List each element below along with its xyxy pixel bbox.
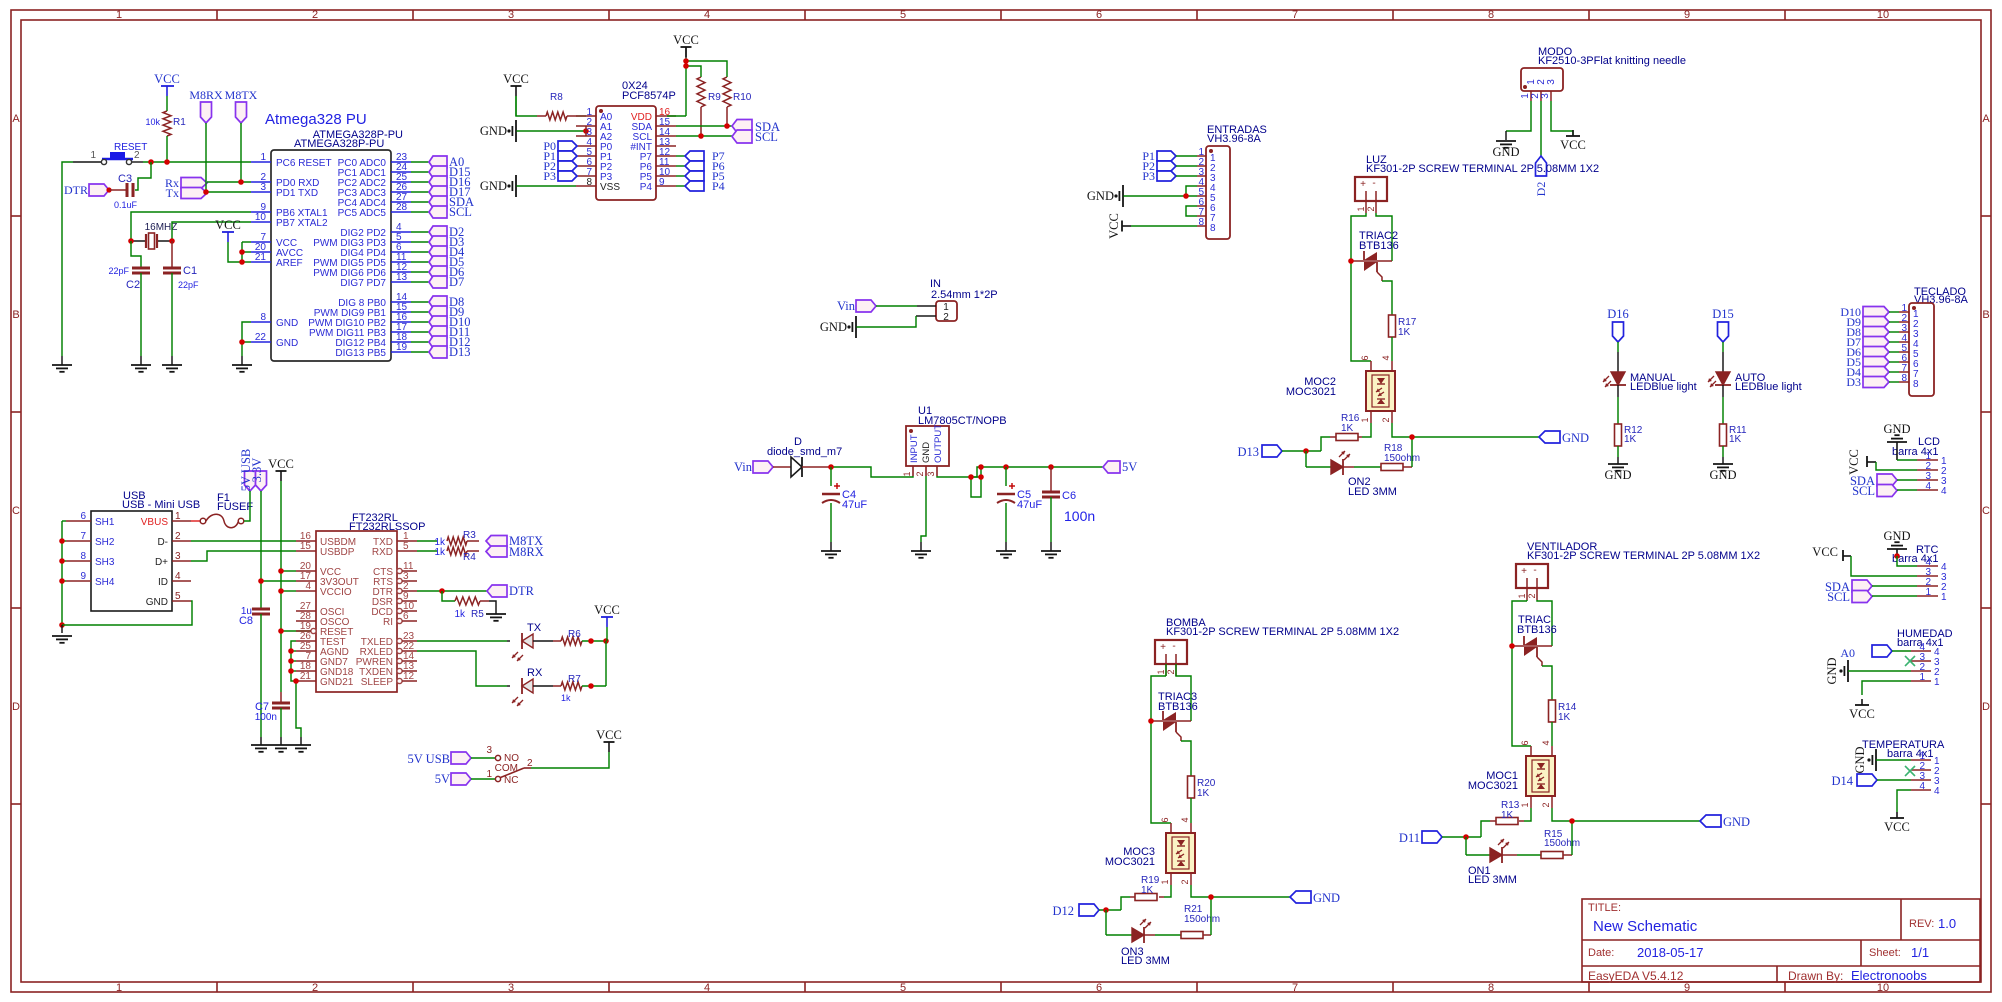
svg-text:2: 2 — [1166, 669, 1176, 674]
svg-text:1: 1 — [1156, 669, 1166, 674]
net port D13 — [1237, 445, 1282, 459]
wire pin1 to VCC — [1862, 681, 1911, 695]
svg-text:SCL: SCL — [449, 205, 472, 219]
wire SDA — [676, 125, 732, 127]
wire D7 — [1889, 341, 1899, 343]
svg-text:BTB136: BTB136 — [1158, 701, 1198, 713]
net port D12 (Atmega) — [429, 335, 471, 349]
wire M8RX down to TXD — [205, 123, 207, 192]
net port D7 (TECLADO) — [1846, 335, 1889, 349]
svg-text:DTR: DTR — [64, 183, 88, 197]
wire MOC2 pin2 to GND flag — [1392, 423, 1539, 437]
svg-text:4: 4 — [1180, 817, 1190, 822]
svg-text:9: 9 — [659, 177, 665, 188]
svg-text:6: 6 — [80, 511, 86, 522]
ground (C5) — [1005, 542, 1007, 551]
net port D7 (Atmega) — [429, 275, 464, 289]
svg-text:KF301-2P SCREW TERMINAL 2P 5.0: KF301-2P SCREW TERMINAL 2P 5.08MM 1X2 — [1527, 550, 1760, 562]
svg-text:-: - — [1172, 641, 1175, 652]
wire GND pin2 to ground — [921, 476, 926, 542]
no-connect X (TEMPERATURA pin2) — [1905, 766, 1915, 776]
ground (FT232 GND) — [300, 737, 302, 745]
capacitor C8 1u — [239, 606, 270, 627]
svg-text:1: 1 — [1919, 672, 1925, 683]
connector USB Mini — [66, 490, 200, 611]
svg-text:1K: 1K — [1141, 885, 1154, 896]
wire DTR to R5 — [442, 591, 455, 601]
wire ON1 to R15 — [1502, 854, 1517, 856]
resistor R8 — [537, 92, 577, 120]
svg-text:2018-05-17: 2018-05-17 — [1637, 945, 1704, 960]
svg-text:1K: 1K — [1341, 423, 1354, 434]
net flag M8TX (top) — [225, 88, 258, 123]
wire VCC to R1 — [166, 96, 168, 111]
svg-text:6: 6 — [1360, 355, 1370, 360]
junction AVCC — [239, 249, 245, 255]
net port D16 — [1607, 307, 1629, 342]
svg-text:VH3.96-8A: VH3.96-8A — [1914, 294, 1968, 306]
svg-text:BTB136: BTB136 — [1517, 624, 1557, 636]
net port P7 (PCF output) — [685, 149, 725, 163]
junction TRIAC2 MT1 — [1348, 258, 1354, 264]
wire RTC pin4 — [1897, 556, 1917, 566]
junction pin4/5 — [1183, 193, 1189, 199]
svg-text:1: 1 — [1925, 587, 1931, 598]
svg-text:R6: R6 — [568, 629, 581, 640]
svg-text:D14: D14 — [1831, 774, 1853, 788]
svg-text:1: 1 — [1934, 677, 1940, 688]
svg-text:5: 5 — [900, 982, 906, 994]
svg-text:VCC: VCC — [1884, 820, 1910, 834]
resistor R15 150ohm — [1541, 829, 1580, 859]
pushbutton RESET — [73, 150, 143, 165]
svg-text:D2: D2 — [1534, 182, 1548, 197]
svg-text:1.0: 1.0 — [1938, 916, 1956, 931]
net port P2 (PCF input) — [543, 159, 577, 173]
svg-text:GND: GND — [1087, 189, 1114, 203]
power flag VCC (HUMEDAD) inverted — [1849, 699, 1875, 721]
resistor R5 1k — [454, 597, 489, 620]
svg-text:D+: D+ — [155, 557, 168, 568]
net port D15 (Atmega) — [429, 165, 471, 179]
svg-text:LED 3MM: LED 3MM — [1468, 874, 1517, 886]
junction D12/LED — [1103, 907, 1109, 913]
net port D8 (TECLADO) — [1846, 325, 1889, 339]
junction D13/LED — [1303, 448, 1309, 454]
net port P6 (PCF output) — [685, 159, 725, 173]
wire DTR pin to flag — [417, 590, 487, 592]
net port P4 (PCF output) — [685, 179, 725, 193]
svg-text:R1: R1 — [173, 117, 186, 128]
net port D10 (TECLADO) — [1840, 305, 1889, 319]
svg-text:DTR: DTR — [509, 584, 535, 598]
wire P4 — [676, 185, 685, 187]
net port D12 — [1052, 904, 1099, 918]
resistor R3 1k — [434, 530, 479, 548]
svg-text:Drawn By:: Drawn By: — [1788, 969, 1843, 983]
net port D5 (Atmega) — [429, 255, 464, 269]
svg-text:4: 4 — [1925, 481, 1931, 492]
wire GND to pin1 — [1876, 759, 1911, 761]
wire ON3 to R21 — [1144, 934, 1155, 936]
net port D10 (Atmega) — [429, 315, 471, 329]
svg-text:B: B — [12, 309, 19, 321]
net port D9 (Atmega) — [429, 305, 464, 319]
svg-text:RX: RX — [527, 667, 543, 679]
net port D8 (Atmega) — [429, 295, 464, 309]
net port D15 — [1712, 307, 1734, 342]
svg-text:8: 8 — [1210, 223, 1216, 234]
net port D2 (Atmega) — [429, 225, 464, 239]
svg-text:NC: NC — [504, 775, 518, 786]
svg-text:9: 9 — [1684, 9, 1690, 21]
wire P2 — [1176, 165, 1197, 167]
svg-text:VH3.96-8A: VH3.96-8A — [1207, 133, 1261, 145]
svg-text:10: 10 — [255, 212, 267, 223]
svg-text:4: 4 — [1941, 486, 1947, 497]
wire R20 to MOC3 pin4 — [1190, 798, 1192, 823]
wire pin to port D11 — [411, 331, 429, 333]
ground (USB) — [61, 625, 63, 633]
screw terminal LUZ — [1355, 154, 1599, 201]
wire pin to port SDA — [411, 201, 429, 203]
wire pin to port D9 — [411, 311, 429, 313]
svg-text:10k: 10k — [145, 117, 160, 127]
wire D4 — [1889, 371, 1899, 373]
junction R15/GND — [1569, 818, 1575, 824]
power flag VCC (FT232) — [268, 457, 294, 481]
net port Rx — [165, 176, 207, 190]
svg-text:M8RX: M8RX — [189, 88, 223, 102]
svg-text:6: 6 — [1096, 982, 1102, 994]
resistor R18 150ohm — [1381, 443, 1420, 471]
wire GND to pin2 — [1848, 670, 1911, 672]
wire VCC rail to FT232 — [280, 481, 282, 692]
wire C5 to ground — [1005, 503, 1007, 542]
svg-text:1: 1 — [116, 9, 122, 21]
ground (left rail) — [61, 356, 63, 365]
svg-text:Date:: Date: — [1588, 947, 1614, 959]
svg-text:SCL: SCL — [1852, 484, 1875, 498]
ground (C8) — [260, 737, 262, 745]
net port D14 (TEMPERATURA) — [1831, 774, 1877, 788]
wire VCC to R8 — [515, 96, 517, 116]
wire D12 net — [1099, 909, 1121, 911]
svg-text:VCC: VCC — [1107, 213, 1121, 239]
svg-text:3.3V: 3.3V — [250, 458, 264, 483]
ground (R5) — [489, 601, 496, 614]
svg-text:PB7 XTAL2: PB7 XTAL2 — [276, 218, 328, 229]
junction AREF — [239, 259, 245, 265]
svg-text:D16: D16 — [1607, 307, 1629, 321]
junction 5V rail — [978, 464, 984, 470]
wire C2 to ground — [140, 273, 142, 356]
IC U? ATMEGA328P-PU — [251, 111, 411, 361]
svg-text:6: 6 — [1160, 817, 1170, 822]
svg-text:C6: C6 — [1062, 490, 1076, 502]
resistor R17 1K — [1389, 315, 1417, 338]
svg-text:GND: GND — [1853, 746, 1867, 773]
net port GND (VENTILADOR) — [1700, 815, 1750, 829]
junction DTR-R5 — [439, 588, 445, 594]
wire D3 — [1889, 381, 1899, 383]
net port P2 (ENTRADAS) — [1142, 159, 1176, 173]
wire pin to port D17 — [411, 191, 429, 193]
svg-text:22: 22 — [255, 332, 267, 343]
LED TX — [512, 622, 542, 661]
wire Vin to pin1 — [876, 305, 917, 307]
svg-text:1K: 1K — [1197, 788, 1210, 799]
wire USB GND pin5 — [62, 601, 192, 625]
svg-text:SH1: SH1 — [95, 517, 115, 528]
svg-text:2: 2 — [1180, 879, 1190, 884]
junction on RESET net — [148, 159, 154, 165]
pin stubs LUZ — [1365, 201, 1367, 213]
svg-text:1: 1 — [90, 150, 96, 161]
net flag M8RX (top) — [189, 88, 223, 123]
svg-text:8: 8 — [1901, 373, 1907, 384]
svg-text:2: 2 — [915, 471, 925, 476]
wire MODO pin3 to VCC — [1551, 101, 1573, 135]
wire Rx to PD0 — [207, 181, 251, 183]
svg-text:GND: GND — [1883, 422, 1910, 436]
connector HUMEDAD barra 4x1 — [1897, 628, 1953, 688]
net port SCL (Atmega) — [429, 205, 472, 219]
svg-text:0.1uF: 0.1uF — [114, 200, 138, 210]
resistor R7 1k — [553, 674, 582, 703]
wire pin to port D12 — [411, 341, 429, 343]
wire VCC to pin8 — [1131, 225, 1197, 227]
svg-text:2: 2 — [312, 982, 318, 994]
pin stubs BOMBA — [1165, 664, 1167, 676]
wire pin6-pin7 jog — [1186, 206, 1197, 216]
ground (C4) — [830, 542, 832, 551]
connector MODO KF2510-3P — [1520, 46, 1686, 101]
wire diode to C4 / U1 — [802, 466, 831, 468]
svg-text:VCC: VCC — [503, 72, 529, 86]
ground (U1) — [920, 542, 922, 551]
wire M8TX down to RXD — [240, 123, 242, 182]
net port P5 (PCF output) — [685, 169, 725, 183]
svg-text:EasyEDA V5.4.12: EasyEDA V5.4.12 — [1588, 969, 1684, 983]
ground (C2) — [140, 356, 142, 365]
svg-text:3: 3 — [508, 982, 514, 994]
net flag SCL (RTC) — [1827, 590, 1872, 604]
svg-text:PC5 ADC5: PC5 ADC5 — [338, 208, 387, 219]
wire to LED ON2 — [1305, 451, 1307, 467]
svg-text:GND: GND — [1604, 468, 1631, 482]
svg-text:ATMEGA328P-PU: ATMEGA328P-PU — [294, 138, 384, 150]
wire R13 to D11 net — [1481, 821, 1490, 837]
wire stub jog (output) — [971, 467, 981, 497]
svg-text:D: D — [1982, 701, 1990, 713]
wire D- to USBDM — [191, 540, 296, 542]
svg-text:1: 1 — [902, 471, 912, 476]
svg-text:12: 12 — [403, 671, 415, 682]
pin stubs VENTILADOR — [1526, 588, 1528, 600]
svg-text:New Schematic: New Schematic — [1593, 918, 1698, 935]
svg-text:-: - — [1372, 178, 1375, 189]
connector RTC barra 4x1 — [1892, 544, 1947, 603]
ground (C6) — [1050, 542, 1052, 551]
wire SCL to RTC pin1 — [1872, 595, 1917, 597]
svg-text:1: 1 — [116, 982, 122, 994]
wire D14 to pin3 — [1877, 779, 1911, 781]
svg-text:1: 1 — [175, 511, 181, 522]
svg-text:SH2: SH2 — [95, 537, 115, 548]
diode D diode_smd_m7 — [767, 436, 842, 477]
svg-text:A0: A0 — [1840, 646, 1855, 660]
wire BOMBA loop left — [1151, 676, 1171, 823]
junction R18/GND — [1409, 434, 1415, 440]
svg-text:P3: P3 — [543, 169, 556, 183]
screw terminal BOMBA — [1155, 617, 1399, 664]
wire C7 to ground — [280, 708, 282, 737]
svg-text:4: 4 — [1919, 781, 1925, 792]
wire RX LED to R7 — [533, 685, 553, 687]
svg-text:A: A — [12, 113, 20, 125]
wire R12 to ground — [1617, 446, 1619, 457]
svg-text:GND: GND — [146, 597, 168, 608]
wire XTAL2 — [172, 222, 251, 241]
svg-text:9: 9 — [1684, 982, 1690, 994]
net port D3 (Atmega) — [429, 235, 464, 249]
junction 3V3OUT — [258, 578, 264, 584]
resistor R9 — [697, 77, 721, 136]
capacitor C2 22pF — [108, 266, 150, 291]
wire GND to pin5 — [1124, 195, 1198, 197]
svg-text:VCC: VCC — [1812, 545, 1838, 559]
wire R18 up to GND net — [1411, 437, 1413, 467]
wire TXLED to TX LED — [417, 640, 507, 642]
wire pin to port D7 — [411, 281, 429, 283]
wire MOC2 pin1 to R16 — [1362, 423, 1371, 437]
svg-text:diode_smd_m7: diode_smd_m7 — [767, 446, 842, 458]
net port D5 (TECLADO) — [1846, 355, 1889, 369]
connector ENTRADAS VH3.96-8A — [1197, 124, 1267, 239]
net flag SDA (RTC) — [1825, 580, 1872, 594]
net port Tx — [166, 186, 207, 200]
wire GND to VSS — [517, 185, 577, 187]
wire R14 to MOC1 pin4 — [1551, 722, 1553, 746]
connector TEMPERATURA barra 4x1 — [1862, 739, 1945, 797]
svg-text:1K: 1K — [1501, 810, 1514, 821]
svg-text:1: 1 — [260, 152, 266, 163]
net port A0 (Atmega) — [429, 155, 464, 169]
wire gate to R14 — [1542, 666, 1552, 700]
svg-text:3: 3 — [486, 745, 492, 756]
svg-text:VCC: VCC — [1847, 449, 1861, 475]
wire pin to port D15 — [411, 171, 429, 173]
svg-text:KF301-2P SCREW TERMINAL 2P 5.0: KF301-2P SCREW TERMINAL 2P 5.08MM 1X2 — [1366, 163, 1599, 175]
net port D3 (TECLADO) — [1846, 375, 1889, 389]
svg-text:GND: GND — [1825, 657, 1839, 684]
power flag VCC (RTC) rotated — [1812, 545, 1851, 561]
ground (R11) — [1713, 464, 1733, 471]
svg-text:VBUS: VBUS — [141, 517, 169, 528]
ground (R12) — [1608, 464, 1628, 471]
wire R15 up to GND net — [1571, 821, 1573, 855]
svg-text:150ohm: 150ohm — [1384, 453, 1420, 464]
junction VCC pin20 — [278, 568, 284, 574]
power flag VCC (switch) — [596, 728, 622, 752]
wire SDA to LCD pin3 — [1897, 479, 1917, 481]
power flag VCC (TX/RX LEDs) — [594, 603, 620, 627]
svg-text:GND: GND — [820, 320, 847, 334]
junction GND pin22 — [239, 339, 245, 345]
svg-text:100n: 100n — [255, 712, 277, 723]
ground flag GND (ENTRADAS) — [1087, 185, 1123, 207]
svg-text:150ohm: 150ohm — [1184, 914, 1220, 925]
wire R8 to A0 — [577, 115, 586, 117]
net port D17 (Atmega) — [429, 185, 471, 199]
svg-text:VCCIO: VCCIO — [320, 587, 352, 598]
net port D16 (Atmega) — [429, 175, 471, 189]
svg-text:R4: R4 — [463, 552, 476, 563]
wire OUTPUT to 5V rail — [937, 467, 1103, 477]
wire TEST/AGND/GND chain — [291, 641, 296, 681]
svg-text:10: 10 — [1877, 982, 1889, 994]
ground flag GND (TEMPERATURA) rotated — [1853, 746, 1876, 773]
svg-text:D15: D15 — [1712, 307, 1734, 321]
net port D2 (MODO) — [1534, 156, 1548, 196]
svg-text:3: 3 — [260, 182, 266, 193]
wire R21 up to GND net — [1210, 897, 1212, 935]
triac TRIAC3 BTB136 — [1151, 691, 1198, 741]
svg-text:DIG7 PD7: DIG7 PD7 — [340, 278, 386, 289]
svg-text:9: 9 — [80, 571, 86, 582]
ground (MODO) — [1505, 131, 1507, 140]
svg-text:D3: D3 — [1846, 375, 1861, 389]
svg-text:GND: GND — [1492, 145, 1519, 159]
wire crystal to C2 — [131, 241, 141, 268]
wire MOC1 pin2 to GND flag — [1552, 808, 1700, 821]
svg-text:4: 4 — [704, 982, 710, 994]
svg-text:VCC: VCC — [1849, 707, 1875, 721]
svg-text:LEDBlue light: LEDBlue light — [1630, 381, 1697, 393]
svg-text:+: + — [1521, 566, 1527, 577]
optocoupler MOC3 MOC3021 — [1105, 817, 1195, 885]
capacitor C7 100n — [255, 692, 290, 723]
junction shield bus — [59, 538, 65, 544]
ground flag GND (VSS) — [480, 175, 516, 197]
svg-text:VCC: VCC — [596, 728, 622, 742]
wire R16 to D13 net — [1321, 437, 1330, 451]
wire R11 to ground — [1722, 446, 1724, 457]
svg-text:3: 3 — [1546, 79, 1557, 85]
svg-text:C: C — [12, 505, 20, 517]
resistor R19 1K — [1130, 875, 1164, 901]
connector LCD barra 4x1 — [1892, 436, 1947, 497]
wire VCC to RTC pin3 — [1851, 556, 1917, 576]
net flag M8TX (FT232) — [486, 534, 543, 548]
wire SCL to LCD pin4 — [1897, 489, 1917, 491]
svg-text:1K: 1K — [1398, 327, 1411, 338]
wire shield bus to ground — [62, 520, 66, 522]
wire SDA to RTC pin2 — [1872, 585, 1917, 587]
wire D8 — [1889, 331, 1899, 333]
svg-text:VCC: VCC — [594, 603, 620, 617]
svg-text:B: B — [1982, 309, 1989, 321]
svg-text:KF301-2P SCREW TERMINAL 2P 5.0: KF301-2P SCREW TERMINAL 2P 5.08MM 1X2 — [1166, 626, 1399, 638]
svg-text:1k: 1k — [454, 609, 466, 620]
wire P5 — [676, 175, 685, 177]
svg-text:1K: 1K — [1558, 712, 1571, 723]
resistor R16 1K — [1330, 413, 1362, 441]
svg-text:100n: 100n — [1064, 508, 1095, 524]
wire D13 net — [1282, 450, 1321, 452]
svg-text:barra 4x1: barra 4x1 — [1892, 446, 1938, 458]
